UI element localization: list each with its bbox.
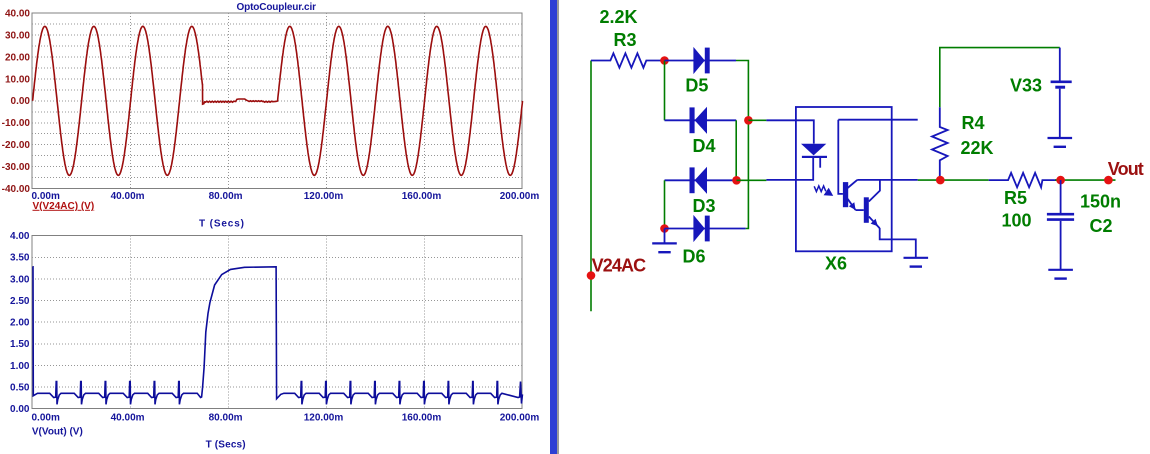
svg-text:0.00m: 0.00m (32, 412, 60, 423)
wire A down to D4 (664, 61, 666, 121)
svg-text:1.00: 1.00 (10, 361, 30, 372)
battery V33 (1059, 48, 1061, 81)
resistor R4 (932, 107, 948, 180)
svg-text:4.00: 4.00 (10, 231, 30, 242)
wire D4 down to D3 (735, 120, 737, 180)
X6 pin LED anode (766, 120, 813, 143)
svg-text:120.00m: 120.00m (304, 191, 344, 202)
svg-text:22K: 22K (961, 138, 994, 158)
bottom chart waveform V(Vout) (33, 267, 523, 405)
ground at D6 (664, 229, 666, 244)
svg-text:-20.00: -20.00 (2, 140, 31, 151)
svg-text:120.00m: 120.00m (304, 412, 344, 423)
wire V24AC net (590, 61, 592, 312)
svg-text:C2: C2 (1090, 216, 1113, 236)
svg-text:T (Secs): T (Secs) (206, 439, 246, 450)
junction C2 (1056, 176, 1065, 185)
junction R4 / output (936, 176, 945, 185)
svg-text:-40.00: -40.00 (2, 184, 31, 195)
svg-text:40.00: 40.00 (5, 9, 30, 20)
svg-text:0.00: 0.00 (10, 404, 30, 415)
capacitor C2 (1060, 180, 1062, 213)
resistor R3 (591, 53, 665, 67)
X6 base pin (838, 119, 917, 121)
svg-text:1.50: 1.50 (10, 339, 30, 350)
wire D5 cathode rail to D6 (736, 61, 748, 229)
bottom chart grid (32, 236, 522, 409)
top chart frame (32, 13, 522, 409)
svg-text:-10.00: -10.00 (2, 118, 31, 129)
svg-text:100: 100 (1002, 210, 1032, 230)
transistor Q2 (864, 197, 869, 223)
svg-text:3.50: 3.50 (10, 253, 30, 264)
node Vout (1104, 176, 1113, 185)
svg-text:OptoCoupleur.cir: OptoCoupleur.cir (237, 2, 317, 13)
node V24AC (587, 271, 596, 280)
ground below C2 (1060, 269, 1062, 271)
resistor R5 (989, 173, 1061, 187)
wire LED anode (748, 119, 766, 121)
svg-text:160.00m: 160.00m (402, 191, 442, 202)
svg-text:0.50: 0.50 (10, 383, 30, 394)
svg-text:X6: X6 (825, 254, 847, 274)
X6 emitter pin (880, 228, 916, 258)
svg-text:D5: D5 (685, 76, 708, 96)
svg-text:10.00: 10.00 (5, 74, 30, 85)
wire D3 down to D6 (664, 180, 666, 228)
top chart waveform V(V24AC) (33, 26, 523, 175)
svg-text:-30.00: -30.00 (2, 162, 31, 173)
svg-text:V(Vout) (V): V(Vout) (V) (32, 426, 83, 437)
transistor Q1 (843, 182, 848, 207)
svg-text:200.00m: 200.00m (500, 412, 540, 423)
diode D3 (665, 179, 737, 181)
svg-text:0.00: 0.00 (11, 96, 31, 107)
junction D6 anode (660, 224, 669, 233)
ground at X6 emitter (915, 257, 917, 259)
window splitter divider (550, 0, 557, 454)
diode D5 (665, 60, 737, 62)
junction D4/D3 anodes (732, 176, 741, 185)
svg-text:T (Secs): T (Secs) (199, 218, 244, 229)
X6 LED (801, 144, 826, 156)
svg-text:V33: V33 (1010, 75, 1042, 95)
X6 collector pin (857, 179, 918, 181)
svg-text:D4: D4 (693, 136, 716, 156)
svg-text:160.00m: 160.00m (402, 412, 442, 423)
svg-text:3.00: 3.00 (10, 274, 30, 285)
svg-text:Vout: Vout (1108, 159, 1144, 179)
wire R4 top to V33 (940, 48, 1060, 108)
svg-text:D3: D3 (693, 196, 716, 216)
ground below V33 (1059, 137, 1061, 139)
svg-text:R3: R3 (614, 30, 637, 50)
wire output to Vout (1055, 179, 1116, 181)
svg-text:150n: 150n (1080, 192, 1121, 212)
chart text (2, 2, 540, 450)
X6 pin LED cathode (766, 158, 813, 180)
svg-text:40.00m: 40.00m (111, 412, 145, 423)
junction node A (660, 56, 669, 65)
optocoupler X6 box (796, 107, 892, 251)
svg-text:D6: D6 (683, 247, 706, 267)
svg-text:2.50: 2.50 (10, 296, 30, 307)
svg-text:40.00m: 40.00m (111, 191, 145, 202)
wire LED cathode (737, 179, 767, 181)
svg-text:2.2K: 2.2K (600, 7, 638, 27)
svg-text:80.00m: 80.00m (209, 412, 243, 423)
X6 light arrow (814, 186, 826, 192)
svg-text:30.00: 30.00 (5, 31, 30, 42)
junction cathode rail / LED anode (744, 116, 753, 125)
diode D6 (665, 228, 746, 230)
svg-text:20.00: 20.00 (5, 52, 30, 63)
svg-text:V24AC: V24AC (592, 256, 647, 276)
top chart grid (32, 13, 522, 188)
svg-text:V(V24AC) (V): V(V24AC) (V) (33, 201, 95, 212)
svg-text:2.00: 2.00 (10, 318, 30, 329)
wire collector row (918, 179, 989, 181)
svg-text:R4: R4 (962, 113, 985, 133)
svg-text:80.00m: 80.00m (209, 191, 243, 202)
svg-text:200.00m: 200.00m (500, 191, 540, 202)
diode D4 (665, 119, 737, 121)
svg-text:R5: R5 (1004, 188, 1027, 208)
